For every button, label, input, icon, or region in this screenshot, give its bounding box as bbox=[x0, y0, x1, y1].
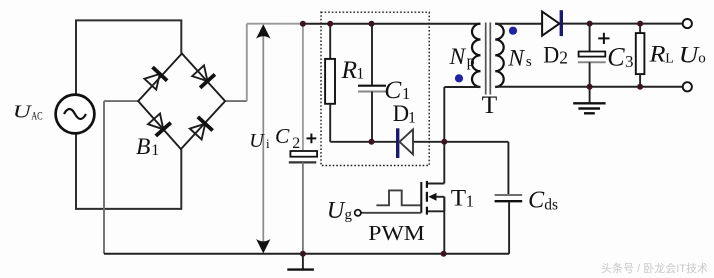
svg-text:B: B bbox=[136, 134, 150, 160]
svg-text:2: 2 bbox=[292, 135, 300, 152]
svg-text:C: C bbox=[275, 124, 290, 148]
svg-text:i: i bbox=[266, 136, 270, 151]
svg-text:N: N bbox=[449, 44, 467, 70]
svg-text:L: L bbox=[665, 51, 674, 66]
svg-text:头条号 / 卧龙会IT技术: 头条号 / 卧龙会IT技术 bbox=[601, 261, 708, 275]
svg-text:D: D bbox=[543, 42, 559, 67]
svg-text:N: N bbox=[507, 45, 525, 71]
svg-text:g: g bbox=[345, 207, 353, 223]
svg-text:C: C bbox=[528, 188, 545, 214]
svg-text:ds: ds bbox=[544, 196, 558, 213]
svg-text:U: U bbox=[679, 42, 700, 67]
svg-text:D: D bbox=[393, 101, 409, 126]
svg-text:p: p bbox=[467, 53, 475, 70]
svg-text:U: U bbox=[249, 130, 265, 152]
svg-text:s: s bbox=[526, 54, 532, 70]
svg-text:R: R bbox=[341, 55, 358, 84]
svg-text:T: T bbox=[482, 92, 498, 119]
svg-text:PWM: PWM bbox=[368, 221, 425, 245]
svg-text:o: o bbox=[698, 50, 706, 66]
svg-text:2: 2 bbox=[559, 48, 568, 68]
svg-text:C: C bbox=[607, 43, 625, 72]
svg-text:1: 1 bbox=[151, 142, 159, 159]
svg-text:U: U bbox=[13, 102, 32, 122]
svg-text:1: 1 bbox=[356, 65, 364, 82]
svg-text:1: 1 bbox=[466, 191, 474, 210]
svg-text:U: U bbox=[327, 198, 346, 224]
svg-text:R: R bbox=[648, 42, 665, 67]
svg-text:AC: AC bbox=[31, 111, 43, 123]
svg-text:1: 1 bbox=[408, 110, 416, 127]
svg-text:3: 3 bbox=[625, 52, 634, 71]
svg-text:T: T bbox=[451, 186, 466, 211]
